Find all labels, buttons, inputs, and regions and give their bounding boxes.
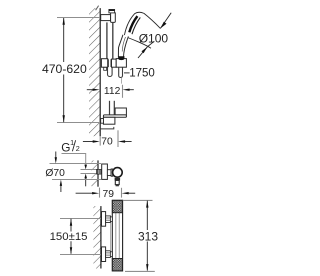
- top bracket knob: [109, 10, 115, 13]
- dimension 470-620 bottom extension line: [57, 122, 100, 124]
- svg-text:150±15: 150±15: [50, 231, 88, 243]
- svg-text:1750: 1750: [129, 68, 155, 80]
- hose below slider: [119, 67, 123, 77]
- slider foot: [104, 67, 107, 70]
- dimension Ø100 upper arrow: [160, 13, 171, 29]
- dimension Ø100 lower arrow: [138, 41, 154, 58]
- slider rail slot lines: [108, 59, 110, 67]
- top bracket head: [111, 12, 116, 22]
- body shading lines: [115, 213, 117, 258]
- wall hatch (top figure): [89, 8, 100, 136]
- bottom bracket lower guide line: [101, 127, 114, 129]
- slider holder cup: [116, 59, 126, 68]
- shower head face band (thick): [129, 16, 137, 32]
- hose thin continuation: [121, 78, 123, 84]
- bottom bracket body square: [103, 117, 115, 124]
- dimension Ø70 extension lines: [50, 163, 102, 165]
- shower head silhouette: [124, 12, 160, 35]
- upper S-union step: [110, 217, 112, 222]
- upper S-union nut: [106, 216, 111, 223]
- knurled handle bottom: [112, 259, 122, 271]
- handle hose nut (black): [118, 56, 124, 60]
- dimension 112 right arrow: [123, 89, 134, 91]
- svg-text:1: 1: [70, 138, 74, 147]
- svg-text:Ø100: Ø100: [139, 31, 169, 45]
- wall line (top figure): [99, 8, 101, 136]
- knurled handle top: [112, 200, 122, 212]
- svg-text:79: 79: [103, 189, 115, 200]
- thermostat body circle: [113, 168, 123, 178]
- lower S-union nut: [106, 251, 111, 258]
- thermostat ring: [111, 169, 113, 176]
- dimension 70 (top figure) left extension: [99, 136, 101, 145]
- dimension 112 right extension line: [122, 85, 124, 98]
- svg-text:470-620: 470-620: [42, 62, 87, 76]
- wall line (bottom): [100, 206, 102, 268]
- wall hatch (bottom): [93, 206, 101, 268]
- dimension Ø70 arrows: [55, 152, 57, 161]
- upper S-union escutcheon: [102, 212, 106, 227]
- thermostat inlet nut: [97, 169, 102, 174]
- wall top hatch stroke: [96, 6, 99, 11]
- thermostat outlet dark band: [115, 178, 121, 181]
- rail upper segment: [106, 22, 108, 58]
- shower head bottom edge: [128, 38, 152, 49]
- thermostat outlet tube: [115, 180, 119, 184]
- handle outline: [118, 35, 128, 57]
- thermostat neck: [107, 170, 111, 176]
- thermostat escutcheon: [102, 164, 108, 179]
- lower S-union escutcheon: [102, 247, 106, 262]
- wall hatch (middle): [92, 160, 99, 186]
- bottom bracket rail stub: [109, 101, 111, 115]
- dimension 470-620 top extension line: [57, 17, 100, 19]
- leader 1750: [124, 72, 130, 74]
- dimension 70 arrows: [83, 140, 132, 142]
- dimension 112 left arrow: [87, 89, 100, 91]
- svg-text:G: G: [61, 140, 70, 154]
- bottom bracket swivel block: [115, 108, 126, 115]
- handle inner line: [122, 37, 125, 52]
- wall line (middle): [97, 160, 99, 186]
- thermostat body slab: [112, 200, 122, 271]
- thermostat outlet tip: [116, 185, 119, 187]
- slider left block: [101, 59, 107, 67]
- dimension 70 right extension: [117, 130, 119, 147]
- svg-text:112: 112: [104, 86, 121, 97]
- G 1/2 pipe extension lines: [81, 169, 98, 171]
- bottom bracket arm bar: [103, 115, 126, 117]
- slider middle block: [112, 59, 117, 67]
- dimension 79 arrows: [76, 192, 136, 194]
- svg-text:70: 70: [101, 137, 113, 148]
- top bracket arm: [101, 15, 111, 21]
- svg-text:Ø70: Ø70: [45, 168, 65, 179]
- svg-text:313: 313: [138, 229, 158, 243]
- G 1/2 leader underline and arrows: [62, 154, 86, 166]
- body rear faint line: [110, 222, 112, 250]
- dimension 313 extension lines: [123, 199, 153, 201]
- dimension 470-620 line and arrows: [63, 18, 65, 123]
- svg-text:2: 2: [76, 144, 80, 153]
- dimension 313 line and arrows: [146, 200, 148, 271]
- dimension 79 extension lines: [99, 188, 101, 198]
- bottom bracket wall connector: [101, 119, 104, 124]
- shower head face inner rim: [132, 17, 140, 34]
- lower S-union step: [110, 252, 112, 257]
- rail lower segment with break end cap: [108, 67, 113, 76]
- dimension 150±15 line and arrows: [70, 219, 72, 255]
- dimension 150±15 extension lines: [60, 218, 101, 220]
